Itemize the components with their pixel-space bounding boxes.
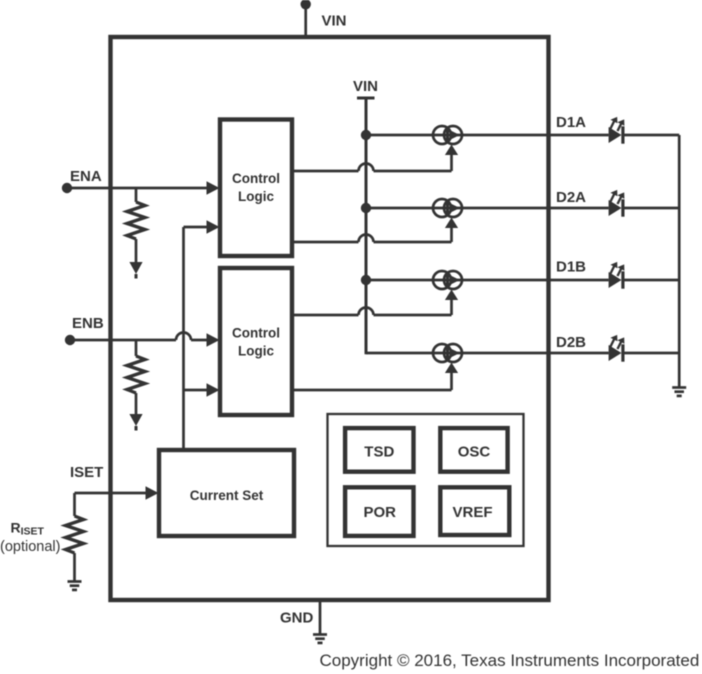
current source D2A — [433, 199, 451, 217]
svg-text:Control: Control — [232, 171, 280, 186]
wire row D2A left segment — [366, 207, 609, 210]
VIN rail power bar — [357, 97, 375, 100]
terminal ENA — [62, 183, 72, 193]
svg-text:VREF: VREF — [452, 504, 492, 521]
terminal VIN pin — [301, 0, 311, 10]
svg-text:(optional): (optional) — [0, 539, 60, 555]
wire control stem D1A — [450, 154, 453, 171]
svg-text:OSC: OSC — [458, 444, 491, 461]
wire control logic output 2 right of hop — [374, 241, 452, 244]
resistor ENB pulldown — [127, 356, 145, 393]
block Control Logic A (U-A) — [220, 120, 292, 257]
svg-text:Logic: Logic — [238, 189, 274, 204]
svg-text:VIN: VIN — [353, 78, 378, 95]
svg-text:D2B: D2B — [556, 334, 586, 351]
arrow ENB pulldown to internal gnd — [129, 414, 142, 426]
block OSC — [440, 428, 507, 472]
current source D1A — [433, 126, 451, 144]
wire control stem D2B — [450, 372, 453, 390]
svg-text:ENB: ENB — [72, 315, 104, 332]
wire hop over VIN rail 3 — [359, 308, 374, 315]
svg-text:GND: GND — [280, 610, 314, 627]
LED D2B — [609, 345, 622, 361]
svg-text:D2A: D2A — [556, 189, 586, 206]
wire control stem D2A — [450, 227, 453, 242]
wire control logic output 2 left of hop — [292, 241, 359, 244]
wire row D2B right segment — [625, 352, 680, 355]
wire current set branch to logic B — [184, 389, 209, 392]
ground (LED return) — [672, 386, 686, 389]
wire ENB left of hop — [70, 339, 176, 342]
ground (RISET) — [68, 580, 82, 583]
wire RISET upper — [73, 493, 76, 516]
wire ENA pulldown lower — [135, 239, 138, 262]
svg-text:Current Set: Current Set — [190, 488, 264, 503]
node junction VIN rail row D1B — [361, 275, 371, 285]
wire ISET — [75, 492, 148, 495]
block Control Logic B (U-B) — [220, 268, 292, 415]
svg-text:Copyright © 2016, Texas Instru: Copyright © 2016, Texas Instruments Inco… — [320, 651, 700, 670]
current source D1B — [433, 271, 451, 289]
wire row D1B left segment — [366, 279, 609, 282]
arrow into control logic A input 2 — [207, 220, 220, 234]
terminal ENB — [65, 335, 75, 345]
wire row D2B left segment — [366, 352, 609, 355]
ground (GND pin) — [313, 633, 327, 636]
wire row D1A left segment — [366, 134, 609, 137]
svg-text:D1B: D1B — [556, 259, 586, 276]
wire row D1B right segment — [625, 279, 680, 282]
wire hop over VIN rail 1 — [359, 164, 374, 171]
wire control logic output 1 left of hop — [292, 170, 359, 173]
svg-text:ISET: ISET — [70, 464, 103, 481]
svg-text:POR: POR — [363, 504, 396, 521]
arrow ISET into current set — [146, 486, 159, 500]
wire RISET lower — [73, 553, 76, 581]
svg-text:D1A: D1A — [556, 114, 586, 131]
wire row D1A right segment — [625, 134, 680, 137]
arrow into control logic B input 2 — [207, 383, 220, 397]
arrow ENA pulldown to internal gnd — [129, 262, 142, 274]
wire ENB hop over current-set line — [176, 333, 191, 340]
arrow ENB into control logic B — [207, 333, 220, 347]
wire VIN rail vertical — [365, 98, 368, 354]
svg-text:Logic: Logic — [238, 344, 274, 359]
block Current Set — [159, 450, 294, 536]
block VREF — [440, 487, 509, 535]
wire control logic output 3 left of hop — [292, 314, 359, 317]
main IC boundary box — [111, 37, 549, 600]
current source D2B — [433, 344, 451, 362]
LED D2A — [609, 200, 622, 216]
LED D1A — [609, 127, 622, 143]
wire ENB pulldown stub — [135, 340, 138, 356]
block POR — [345, 487, 413, 536]
wire VIN pin to box — [304, 4, 307, 37]
block housekeeping sub-box — [328, 414, 524, 546]
wire control logic output 1 right of hop — [374, 170, 452, 173]
arrow ENA into control logic A — [207, 181, 220, 195]
wire ENB right of hop — [191, 339, 208, 342]
wire control logic output 4 — [292, 389, 452, 392]
svg-text:RISET: RISET — [11, 520, 45, 538]
wire ENA pulldown stub — [135, 188, 138, 202]
arrow control into current source D1A — [445, 145, 458, 156]
wire ENA to control logic A — [67, 187, 208, 190]
node junction VIN rail row D1A — [361, 130, 371, 140]
block TSD — [345, 428, 413, 472]
resistor RISET — [66, 516, 84, 553]
wire ENB pulldown lower — [135, 393, 138, 414]
wire row D2A right segment — [625, 207, 680, 210]
arrow control into current source D2A — [445, 218, 458, 229]
resistor ENA pulldown — [127, 202, 145, 239]
svg-text:TSD: TSD — [364, 444, 394, 461]
svg-text:Control: Control — [232, 326, 280, 341]
LED D1B — [609, 272, 622, 288]
node junction VIN rail row D2A — [361, 203, 371, 213]
wire GND pin — [319, 602, 322, 634]
wire control stem D1B — [450, 299, 453, 315]
wire current set branch to logic A — [184, 226, 209, 229]
svg-text:ENA: ENA — [70, 168, 102, 185]
wire hop over VIN rail 2 — [359, 235, 374, 242]
arrow control into current source D2B — [445, 363, 458, 374]
wire current set to control logic vertical — [182, 227, 185, 450]
wire LED cathode return rail — [678, 135, 681, 387]
wire control logic output 3 right of hop — [374, 314, 452, 317]
svg-text:VIN: VIN — [322, 13, 347, 30]
arrow control into current source D1B — [445, 290, 458, 301]
